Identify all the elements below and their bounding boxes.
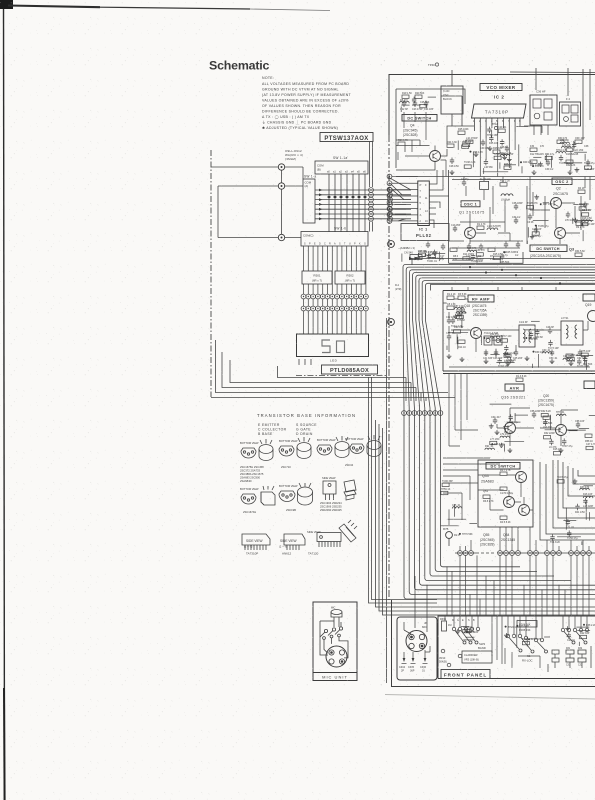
component cluster band 12 [485, 404, 528, 452]
wire [526, 637, 528, 647]
resistor R20 [415, 92, 425, 98]
xtal osc block [441, 86, 463, 114]
wire [428, 96, 436, 98]
cap C31 15P [504, 146, 514, 157]
node TP68 [581, 223, 595, 226]
cap C14 [527, 214, 534, 225]
wire [499, 162, 501, 168]
label box DC SWITCH Q3 [530, 245, 567, 252]
resistor R2 [582, 209, 591, 216]
LED display box [297, 334, 369, 357]
wire [543, 202, 549, 204]
capacitor L60 [412, 97, 421, 107]
wire [533, 219, 549, 221]
drops from blocks to row [460, 527, 589, 551]
inductor TP10 [500, 152, 512, 156]
wire [526, 240, 528, 244]
node D13 [516, 625, 529, 628]
bus to RF box stubs [452, 287, 556, 291]
wire lb5 [425, 398, 427, 402]
wire IC2 pin1 to xtal [441, 96, 475, 131]
drops from row to front panel [460, 555, 589, 616]
cap C43 [493, 350, 503, 361]
scan edge: top-left corner blob [0, 0, 13, 9]
cap C34 [512, 216, 521, 224]
capacitor C98 [500, 139, 508, 149]
resistor C90 [463, 626, 473, 633]
node D37 [540, 203, 553, 206]
cap C41 [483, 350, 493, 361]
connector M78 [446, 532, 453, 539]
transistor Q1 [465, 228, 476, 239]
wire [516, 126, 528, 128]
wire [525, 329, 544, 331]
notes text block [262, 76, 352, 130]
wire [545, 155, 547, 162]
resistor TP37 [501, 335, 513, 342]
res R32 [566, 160, 576, 167]
diode D13 [566, 148, 579, 156]
inductor L79 [500, 433, 510, 438]
resistor L47 [418, 250, 427, 257]
label box OSC 2 [552, 178, 572, 185]
wire [574, 151, 587, 153]
cap C2 47u [461, 178, 469, 186]
capacitor C23 [412, 101, 423, 112]
scan artifact faint bottom line [385, 695, 595, 700]
JK MIC jack box [397, 617, 437, 680]
wire [476, 256, 478, 263]
capacitor TP14 [432, 250, 444, 260]
ground [573, 479, 578, 484]
note text crystal [285, 149, 303, 161]
capacitor TC66 [471, 253, 484, 263]
wire [448, 509, 450, 525]
component cluster band 3 [400, 97, 436, 112]
label box OSC 1 [461, 201, 480, 207]
switch SW1-b box [301, 232, 368, 247]
wire [461, 625, 469, 627]
resistor R23 [398, 139, 408, 145]
res off [575, 140, 582, 143]
res R26 33K [493, 147, 503, 153]
wire [572, 218, 574, 224]
wires column C to IC1 [392, 177, 418, 221]
wires avr [497, 408, 578, 446]
row2 type labels [243, 508, 296, 514]
junction circle J1 [278, 164, 284, 170]
capacitor C13 [451, 224, 461, 232]
resistor C29 [498, 126, 507, 132]
capacitor L44 [529, 331, 539, 341]
wire [509, 357, 511, 363]
node R38 [583, 624, 595, 627]
mic connector circle [326, 646, 347, 667]
wire [579, 428, 589, 430]
wire [532, 364, 534, 368]
wire [472, 152, 474, 167]
inductor TP34 [556, 149, 568, 153]
cap C52 [577, 350, 587, 361]
transistor Q18 [471, 328, 482, 339]
node R37 [466, 631, 479, 634]
wires OSC2 area [530, 177, 590, 245]
capacitor TC22 [572, 142, 584, 152]
wire [516, 628, 518, 648]
wires bundle to DC switch block [443, 458, 500, 520]
component cluster band 17 [504, 625, 550, 648]
wire [456, 334, 458, 344]
connector CN540 [410, 255, 422, 260]
IC2 pins [475, 118, 521, 140]
mic internal wires [320, 621, 348, 658]
left block bus continuation [376, 378, 595, 616]
capacitor C22 [400, 101, 408, 112]
scan edge: top horizontal line [8, 6, 100, 8]
node TP69 [528, 638, 542, 641]
res R22 [500, 180, 510, 186]
capacitor TP97 [562, 438, 573, 448]
capacitor TC56 [567, 530, 578, 540]
IC U1 PLL02 body [418, 181, 430, 226]
resistor network R502 [335, 271, 365, 284]
transistor Q18 designator [464, 304, 488, 317]
node R98 [470, 151, 484, 154]
transistor Q4 designator [403, 124, 418, 138]
resistor R25 100K [458, 128, 469, 134]
wire bus P0..P6 to connectors [315, 190, 411, 219]
resistor TC95 [527, 202, 539, 209]
label box VCO MIXER [480, 84, 522, 91]
transistor Q-b [504, 497, 515, 508]
wire [461, 306, 463, 328]
wire drops below RF AMP [449, 374, 478, 447]
transistor outline pkg row1 g3 [317, 436, 349, 458]
transistor outline pkg row1 g4 [350, 435, 381, 457]
node R36 [491, 443, 504, 446]
junction arrows on bus [319, 189, 322, 221]
capacitor C90 [506, 352, 517, 362]
capacitor D75 [457, 312, 465, 322]
wire junctions to border [211, 167, 303, 238]
right cluster resistors [566, 650, 586, 662]
component cluster right of FL [530, 137, 589, 148]
resistor L45 [476, 249, 485, 256]
node TP20 [505, 626, 518, 629]
wire [584, 154, 586, 161]
cap C45 [513, 350, 523, 361]
wires from SW1-b down [304, 246, 366, 294]
resistor TP30 [494, 153, 505, 160]
node L31 [532, 165, 544, 168]
wire [568, 430, 577, 432]
component cluster band 4 [527, 195, 553, 244]
transistor Q-c [519, 505, 530, 516]
inductor TP80 [456, 309, 466, 313]
wire [463, 639, 473, 641]
cap C35 [512, 202, 523, 210]
component cluster band 15 [550, 476, 594, 545]
capacitor L24 [509, 414, 519, 424]
capacitor L6 [549, 439, 557, 449]
transistor Q-a [516, 472, 527, 483]
row2 bottom-view labels [240, 484, 298, 491]
dash segment [479, 552, 497, 554]
resistor D90 [454, 326, 464, 333]
mic unit separator [313, 672, 357, 674]
res R34 [575, 250, 585, 256]
capacitor L42 [583, 498, 594, 508]
LED digit 5 [322, 340, 330, 353]
wire [538, 354, 540, 368]
wire [504, 441, 524, 443]
wire [545, 429, 562, 431]
wire [527, 227, 529, 237]
resistor R69 [581, 219, 591, 226]
wire [465, 636, 474, 638]
OSC2 interior wires [527, 186, 581, 244]
wire bus line 8 [425, 283, 595, 567]
wire bus line 1 [403, 264, 595, 599]
VCO enclosure box [396, 89, 465, 104]
res R3.4 [458, 293, 467, 299]
capacitor TP84 [487, 127, 498, 137]
component cluster band 2 [532, 139, 595, 172]
wire [507, 421, 521, 423]
component cluster band 6 [402, 250, 445, 263]
bus arrow ticks [409, 257, 418, 261]
capacitor R41 [575, 504, 585, 514]
wires from SW1-1a' pins down [329, 174, 365, 232]
wire [432, 253, 445, 255]
node TP76 [459, 533, 473, 536]
wire [457, 141, 459, 150]
microphone symbol [331, 607, 342, 628]
wire [557, 536, 581, 538]
resistor R14 [463, 253, 473, 260]
capacitor R31 [503, 424, 513, 434]
wire [584, 356, 586, 365]
inductor L99 [490, 333, 500, 338]
res R1.2 [447, 293, 456, 299]
cap C58 [575, 420, 585, 428]
wire [536, 225, 538, 233]
wire [514, 413, 516, 421]
wire [504, 444, 506, 452]
capacitor TC61 [451, 318, 463, 329]
wire [576, 626, 589, 628]
ground [538, 162, 543, 167]
transistor outline pkg row2 g1 [241, 486, 275, 505]
resistor R32 [579, 203, 589, 210]
transistor Q2 [551, 198, 562, 209]
board edge chain line left [210, 150, 212, 397]
wire [518, 144, 520, 166]
wire bus line 7 [422, 281, 595, 572]
block bottom nested corner wires [211, 340, 426, 398]
resistor TC38 [464, 161, 476, 168]
cap C50 [549, 350, 558, 361]
wire lb2 [410, 383, 412, 402]
front panel right extra components [548, 646, 591, 672]
res R55 [543, 416, 553, 425]
resistor TP16 [456, 312, 467, 319]
OSC1 interior verticals [452, 180, 595, 233]
capacitor arrows C304-306 [403, 658, 427, 662]
wire bus line 6 [419, 278, 595, 576]
bus fan to connector column [388, 177, 411, 221]
wire [544, 636, 550, 638]
ground [499, 443, 504, 448]
panel top stub wires [445, 616, 587, 668]
resistor D62 [541, 410, 551, 417]
wire [573, 204, 585, 206]
resistor C95 [428, 251, 438, 258]
transistor Q20 [556, 425, 567, 436]
wire [577, 629, 590, 631]
transistor Q3 [555, 228, 566, 239]
res R50 [566, 354, 576, 363]
ground [455, 629, 460, 634]
inductor D87 [454, 305, 464, 309]
resistor TC89 [522, 638, 533, 645]
scan edge: bottom-left darker segment [3, 688, 6, 800]
extended pin wires IC2 [464, 132, 515, 182]
wire [576, 355, 593, 357]
ground [416, 255, 421, 260]
connector circles column A [369, 188, 374, 222]
inductor R49 [467, 247, 477, 252]
wire bus line 5 [416, 275, 595, 580]
wire [578, 642, 580, 646]
LED digit 0 [337, 341, 345, 353]
res R1 4.7K [477, 223, 486, 229]
wire [531, 320, 540, 322]
wire bus line 4 [413, 273, 595, 586]
test point TP40 [428, 63, 435, 67]
inductor D16 [583, 493, 593, 498]
transistor Q20 designator [538, 394, 554, 407]
inductor C60 [542, 349, 552, 354]
wire bus line 3 [409, 270, 595, 590]
vertical rail pair right of switch assembly [369, 142, 438, 604]
front panel enclosure [438, 616, 595, 679]
wire [448, 518, 467, 520]
filter can FL1 [530, 95, 557, 135]
cap C48 [546, 326, 554, 334]
inductor R18 [582, 217, 593, 222]
wire [563, 520, 576, 522]
wire [448, 332, 468, 334]
res R28 82 [504, 163, 512, 169]
wire [490, 403, 512, 405]
junction circle J2 [278, 183, 284, 189]
res R-int2 [500, 487, 514, 495]
transistor outline pkg row2 g2 [279, 483, 313, 505]
wire bus line 0 [412, 258, 595, 265]
resistor R75 [581, 350, 591, 357]
node R59 [483, 337, 495, 340]
resistor C49 [532, 228, 542, 235]
res R-int1 [500, 469, 511, 475]
switch SW1-1a' box [315, 161, 368, 174]
capacitor L46 [484, 159, 494, 169]
res R14 [458, 340, 466, 349]
connector circle column C [387, 174, 392, 223]
capacitor D35 [489, 135, 499, 145]
node D45 [503, 251, 515, 254]
row wire [455, 552, 595, 554]
wire [438, 252, 440, 262]
component cluster band 14 [441, 480, 477, 536]
wire [533, 156, 541, 158]
wire [491, 130, 493, 138]
capacitor L93 [543, 419, 552, 429]
wire [483, 171, 509, 173]
ground [575, 167, 580, 172]
resistor D15 [553, 448, 561, 455]
component cluster band 7 [452, 247, 516, 264]
wire [564, 162, 582, 164]
cap C55 [530, 410, 541, 418]
wire lb3 [415, 388, 417, 402]
component cluster band 11 [563, 350, 593, 370]
inductor TP7 [556, 411, 566, 416]
RF AMP enclosure [443, 291, 595, 374]
ground symbols rf [447, 354, 452, 359]
inductor D37 [580, 486, 590, 490]
block enclosure [478, 460, 533, 527]
wire [584, 485, 594, 487]
connector circles column B [388, 188, 393, 222]
border companion line [386, 318, 388, 683]
OSC1 enclosure [449, 170, 523, 263]
component cluster band 13 [541, 410, 595, 455]
mixer label box cut [583, 294, 595, 301]
cap C16 [446, 332, 455, 340]
capacitor TC96 [427, 253, 438, 263]
wire bundle below left block [376, 420, 595, 607]
capacitor R50 [535, 329, 543, 339]
resistor TC96 [442, 480, 453, 487]
wire [576, 220, 593, 222]
op-amp IC2 TA7310P body [472, 104, 527, 118]
wire [570, 151, 572, 171]
ground [573, 218, 578, 223]
wire extensions block bottom [296, 359, 455, 398]
coil L9 [501, 194, 513, 196]
ic pkg AN612 outline [280, 534, 305, 550]
wire bus line 2 [406, 267, 595, 594]
ground [503, 351, 508, 356]
front panel mid extra wires [505, 648, 540, 668]
filter can FL2 [560, 102, 581, 126]
capacitor TP61 [504, 345, 516, 355]
wire [581, 541, 583, 545]
component cluster band 1 [458, 126, 533, 174]
ground [489, 424, 494, 429]
label box PTLD085AOX [322, 365, 378, 374]
right transformer T21 [561, 321, 583, 345]
res R13 [516, 375, 527, 381]
wire [589, 415, 595, 417]
ground [504, 633, 509, 638]
cap C60 [491, 416, 501, 424]
stubs above top border [452, 68, 590, 76]
capacitor C23 [567, 632, 576, 642]
res R58 [585, 434, 593, 443]
cap C36b [585, 160, 595, 172]
